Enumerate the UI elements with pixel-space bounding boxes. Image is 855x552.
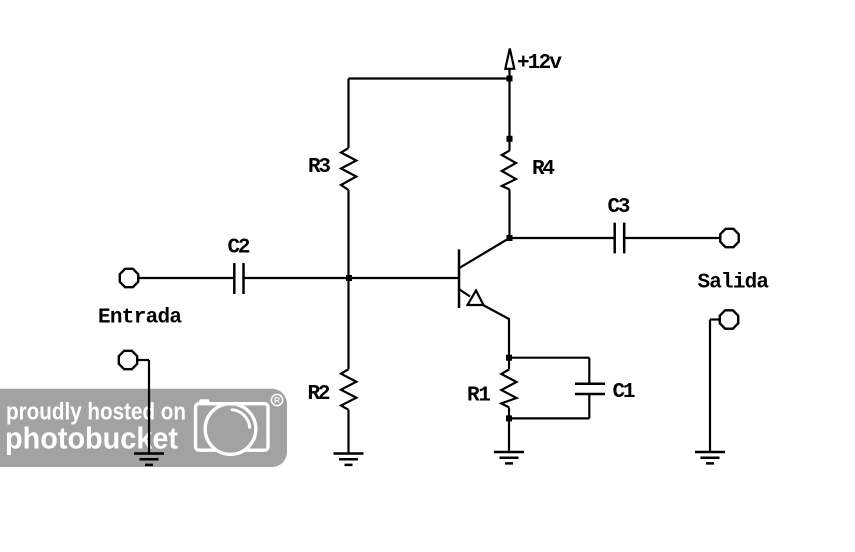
svg-text:R3: R3 [308,156,331,179]
svg-text:R: R [274,396,280,405]
svg-text:R2: R2 [308,383,331,406]
svg-text:C3: C3 [608,196,631,219]
svg-text:C1: C1 [613,381,636,404]
svg-text:Salida: Salida [698,271,770,294]
svg-text:photobucket: photobucket [5,421,178,456]
svg-text:R4: R4 [532,158,555,181]
svg-text:+12v: +12v [517,52,562,75]
svg-text:C2: C2 [228,237,251,260]
svg-text:Entrada: Entrada [98,307,182,330]
svg-text:R1: R1 [467,384,491,407]
